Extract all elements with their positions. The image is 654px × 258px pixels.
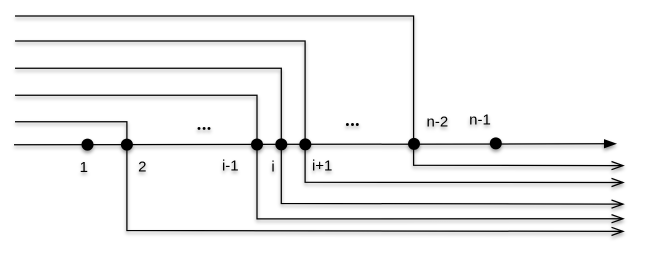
svg-text:2: 2 xyxy=(138,158,146,175)
svg-text:n-2: n-2 xyxy=(427,113,449,130)
node 2 xyxy=(121,139,133,151)
node i+1 xyxy=(299,138,311,150)
svg-text:i-1: i-1 xyxy=(222,157,239,174)
node n-2 xyxy=(408,138,420,150)
wire from left edge through node 2 to right arrow xyxy=(15,122,623,232)
wire from left edge through node i+1 to right arrow xyxy=(15,41,623,183)
svg-text:i: i xyxy=(271,159,274,176)
arrowhead of wire i xyxy=(612,200,624,208)
ellipsis between i+1 and n-2 xyxy=(346,123,359,126)
node i xyxy=(275,138,287,150)
node i-1 xyxy=(251,139,263,151)
arrowhead of wire n-2 xyxy=(612,162,624,170)
wire from left edge through node i-1 to right arrow xyxy=(15,95,623,219)
axis line xyxy=(14,144,604,145)
node 1 xyxy=(82,139,94,151)
svg-text:n-1: n-1 xyxy=(469,112,491,129)
ellipsis between 2 and i-1 xyxy=(198,127,211,130)
arrowhead of wire i-1 xyxy=(612,215,624,223)
wire from left edge through node i to right arrow xyxy=(15,68,623,204)
svg-text:i+1: i+1 xyxy=(312,157,332,174)
axis arrowhead xyxy=(604,139,617,148)
arrowhead of wire i+1 xyxy=(612,178,624,186)
wire from left edge through node n-2 to right arrow xyxy=(15,16,623,166)
svg-text:1: 1 xyxy=(80,159,88,176)
node n-1 xyxy=(490,137,502,149)
arrowhead of wire 2 xyxy=(612,227,624,235)
